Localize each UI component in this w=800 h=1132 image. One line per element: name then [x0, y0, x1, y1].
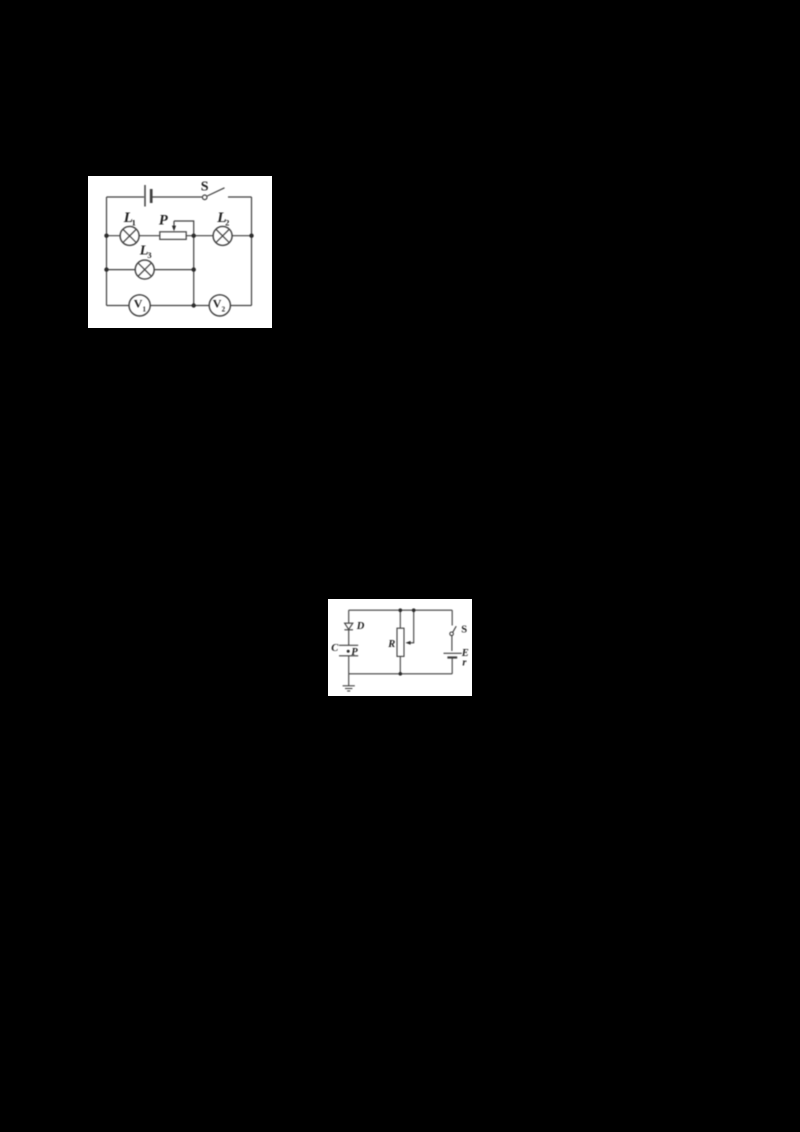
svg-text:C: C — [331, 643, 339, 654]
svg-text:S: S — [201, 180, 209, 195]
svg-text:3: 3 — [147, 250, 151, 260]
svg-text:1: 1 — [132, 218, 136, 228]
svg-text:R: R — [387, 639, 395, 650]
svg-text:S: S — [461, 624, 467, 635]
svg-text:V: V — [134, 297, 143, 311]
svg-text:r: r — [462, 658, 467, 669]
svg-text:2: 2 — [222, 306, 226, 314]
svg-text:V: V — [213, 297, 222, 311]
svg-text:P: P — [159, 212, 168, 228]
svg-text:1: 1 — [143, 306, 147, 314]
svg-text:D: D — [356, 621, 365, 632]
svg-text:2: 2 — [225, 218, 229, 228]
svg-text:P: P — [351, 647, 358, 658]
